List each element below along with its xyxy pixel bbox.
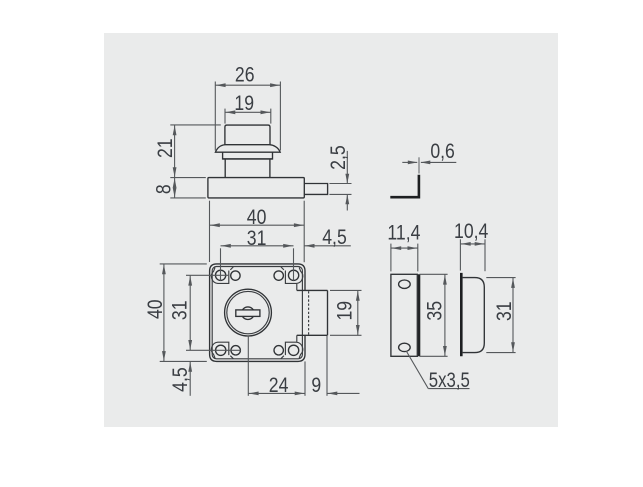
screw cup top-right <box>285 268 302 284</box>
dim 21 line <box>174 125 176 178</box>
dim 19 line <box>225 111 271 113</box>
dim 10,4 line <box>460 243 485 245</box>
dim 11,4 extension lines <box>390 244 392 272</box>
extension line from cylinder centre <box>247 336 249 396</box>
dim 8 extension line <box>170 197 206 199</box>
svg-text:2,5: 2,5 <box>326 145 350 170</box>
top view lower cylinder <box>225 159 270 178</box>
svg-text:31: 31 <box>493 301 517 321</box>
svg-text:11,4: 11,4 <box>387 221 420 245</box>
strike plate slot bottom <box>399 343 411 351</box>
svg-text:31: 31 <box>168 300 192 320</box>
svg-text:31: 31 <box>247 226 267 250</box>
top view neck band <box>223 152 273 159</box>
top view flange <box>215 145 280 153</box>
dim 35 extension lines <box>420 273 448 275</box>
svg-text:4,5: 4,5 <box>169 367 193 392</box>
dim 2,5 line <box>346 151 348 184</box>
dim 35 line <box>444 274 446 356</box>
screw hole top-left <box>215 270 225 280</box>
drawing sheet background <box>104 33 558 427</box>
dim 4,5 bottom-left line <box>189 361 191 395</box>
dim 31 top line <box>221 245 294 247</box>
svg-text:0,6: 0,6 <box>430 139 455 163</box>
svg-text:19: 19 <box>333 301 357 321</box>
dim 31 top extension lines <box>220 248 222 280</box>
dim 40 left line <box>163 264 165 362</box>
screw hole bottom-left <box>216 345 226 355</box>
cylinder outer ring <box>225 289 272 336</box>
angle bracket extension line <box>418 157 420 173</box>
top view base plate <box>208 178 304 198</box>
svg-text:40: 40 <box>144 299 168 319</box>
svg-text:19: 19 <box>234 92 254 116</box>
dim 19 right extension lines <box>330 289 362 291</box>
dim 26 line <box>215 84 280 86</box>
dim 19 right line <box>357 290 359 335</box>
dim 31 side extension lines <box>486 277 515 279</box>
extension line bolt right edge bottom <box>326 336 328 396</box>
svg-text:10,4: 10,4 <box>454 219 489 243</box>
svg-text:4,5: 4,5 <box>322 226 347 250</box>
top view cylinder cap <box>225 125 270 145</box>
dim 0,6 arrows <box>402 161 417 163</box>
svg-text:9: 9 <box>311 374 321 398</box>
front body inner contour <box>212 267 302 359</box>
dim 9 bottom arrow <box>327 392 360 394</box>
screw cup bottom-left <box>211 342 228 358</box>
side view flange edge (thick) <box>460 273 463 356</box>
strike plate bent edge (thick) <box>418 274 420 356</box>
dim 31 left extension lines <box>186 274 229 276</box>
dim 11,4 line <box>391 247 418 249</box>
pilot hole bottom-right inner <box>274 346 283 355</box>
cylinder inner ring <box>227 291 269 333</box>
dim 10,4 extension lines <box>459 239 461 270</box>
svg-text:26: 26 <box>235 63 255 87</box>
dim 21 extension lines <box>170 124 221 126</box>
dim 8 line <box>174 178 176 198</box>
dim 4,5 top-right arrow <box>304 245 351 247</box>
leader line 5x3,5 <box>406 351 428 389</box>
key plug circle <box>242 307 255 320</box>
screw cup top-left <box>211 268 228 284</box>
dim 40 top line <box>210 224 305 226</box>
dim 31 side line <box>512 278 514 353</box>
dim 31 left line <box>189 275 191 350</box>
front body outer contour <box>210 264 305 362</box>
screw hole bottom-right <box>288 345 298 355</box>
latch bolt hidden edge (dashed) <box>308 291 310 334</box>
svg-text:5x3,5: 5x3,5 <box>429 370 470 393</box>
dim 26 extension lines <box>214 82 216 151</box>
svg-text:8: 8 <box>152 184 176 194</box>
svg-text:24: 24 <box>269 374 289 398</box>
key slot bar <box>236 310 260 317</box>
dim 2,5 extension lines <box>329 183 351 185</box>
pilot hole top-right inner <box>274 271 283 280</box>
side view body profile <box>463 278 485 353</box>
angle bracket thick L profile <box>390 175 419 197</box>
pilot hole top-left inner <box>231 271 240 280</box>
svg-text:35: 35 <box>423 301 447 321</box>
latch bolt front view <box>297 289 328 291</box>
strike plate slot top <box>399 280 411 288</box>
dim 40 left extension lines <box>160 263 207 265</box>
strike plate outline <box>391 274 417 356</box>
top view latch bolt <box>304 184 327 195</box>
dim 24 bottom line <box>248 392 305 394</box>
extension lines linking top and front views <box>209 201 211 262</box>
dim 19 extension lines <box>224 109 226 124</box>
extension line body right edge bottom <box>304 361 306 395</box>
pilot hole bottom-left inner <box>231 346 240 355</box>
screw cup bottom-right <box>285 342 302 358</box>
svg-text:21: 21 <box>153 138 177 158</box>
screw hole top-right <box>288 270 298 280</box>
